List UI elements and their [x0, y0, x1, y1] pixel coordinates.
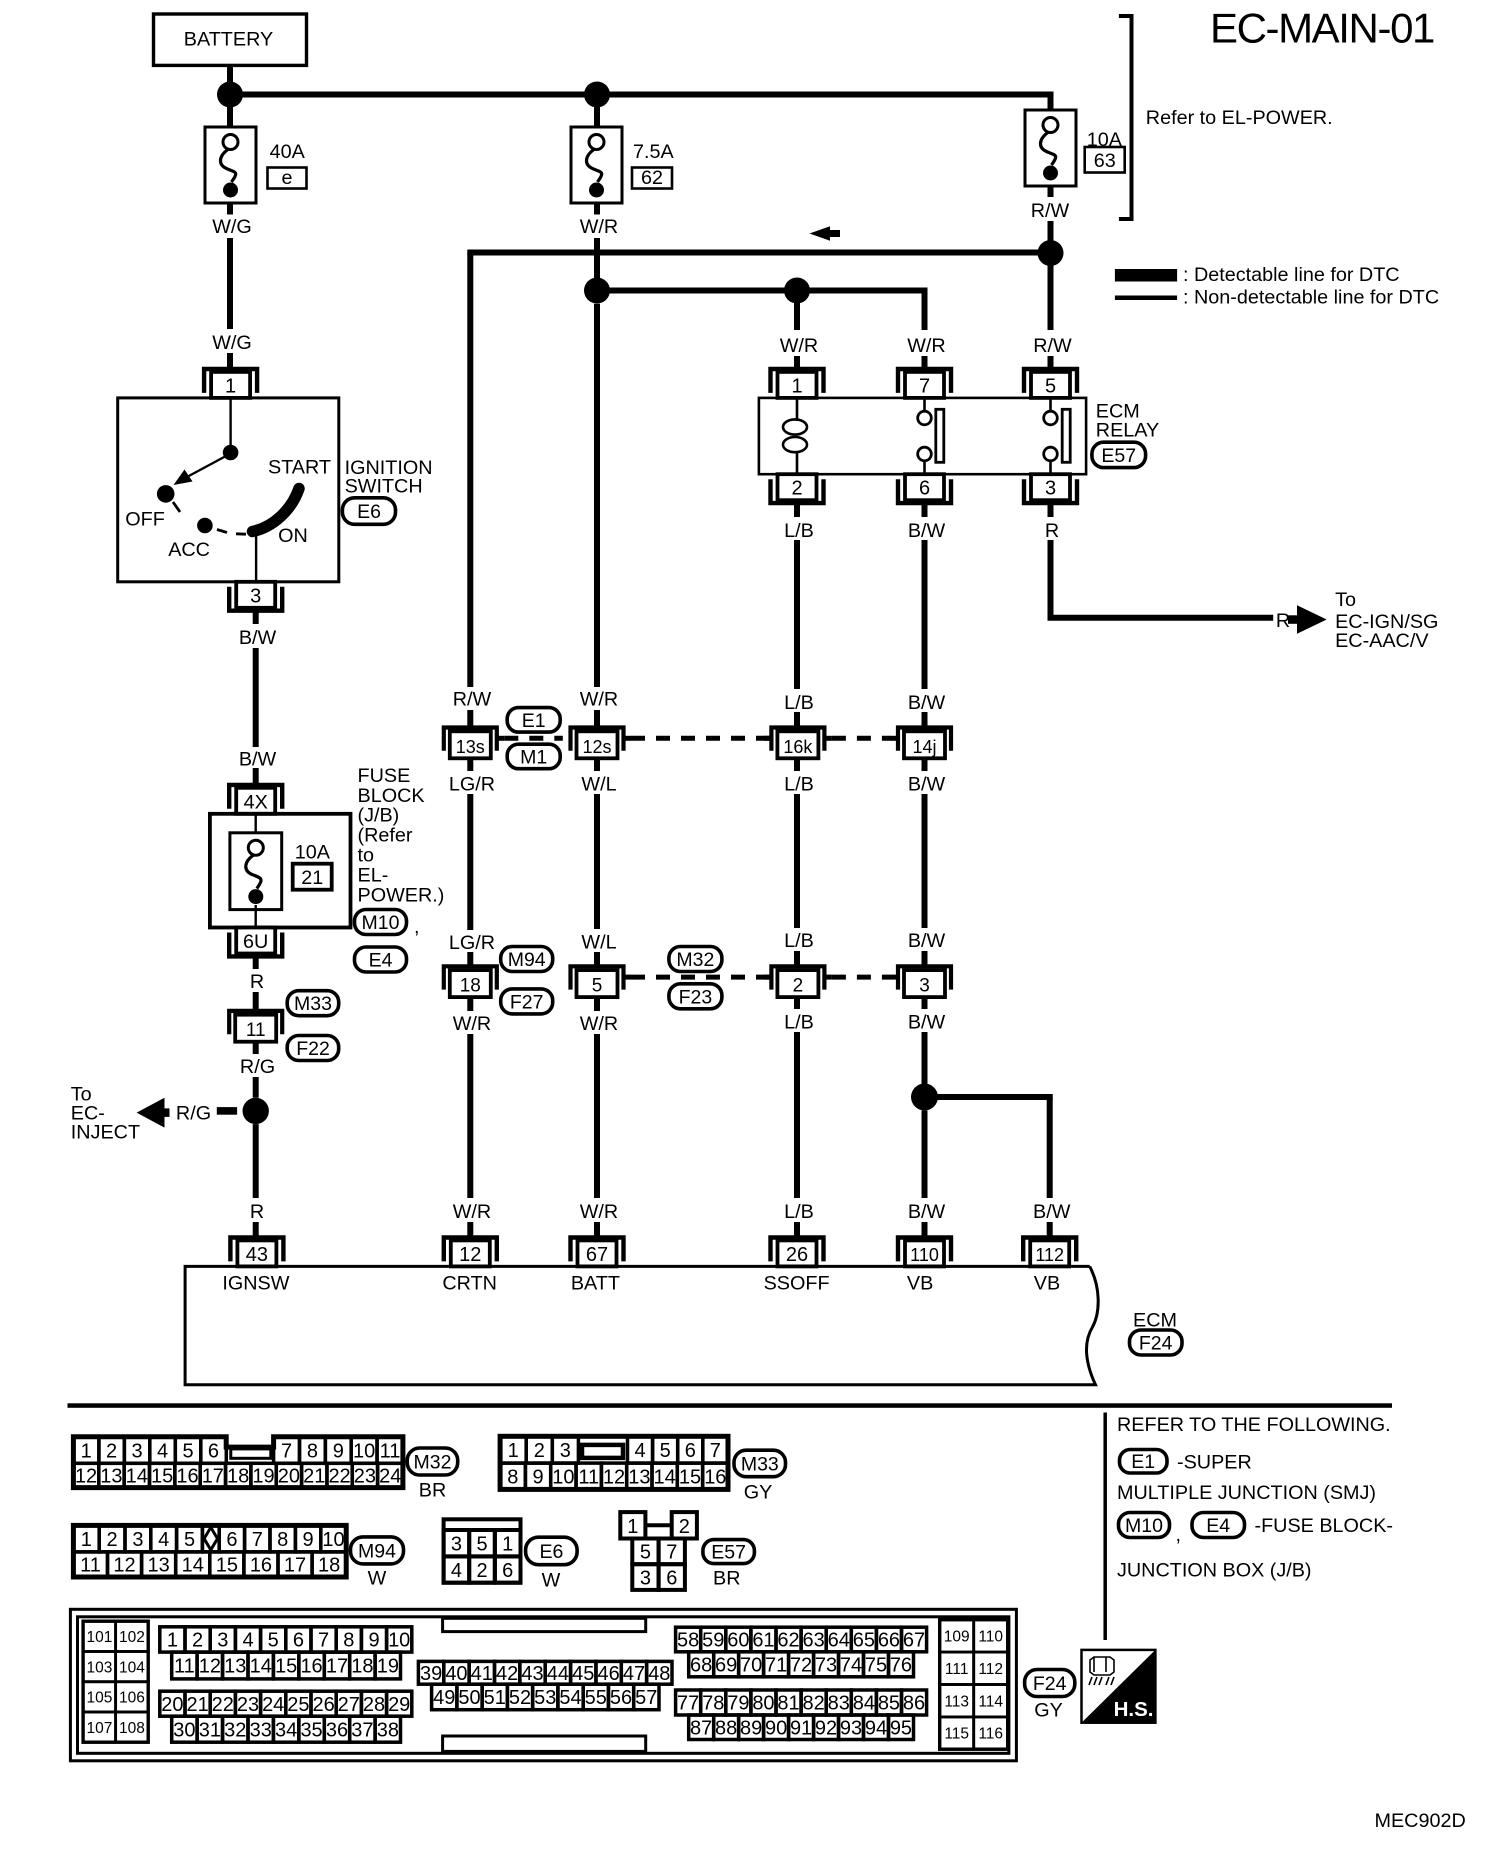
node W/R [584, 278, 610, 304]
svg-text:INJECT: INJECT [71, 1122, 140, 1144]
connector F27 [501, 989, 553, 1014]
svg-text:7: 7 [281, 1440, 292, 1462]
svg-text:68: 68 [690, 1655, 712, 1677]
svg-text:48: 48 [648, 1663, 670, 1685]
svg-text:2: 2 [534, 1440, 545, 1462]
svg-text:: Non-detectable line for DTC: : Non-detectable line for DTC [1183, 287, 1439, 309]
wire W/G fuse e to ignition switch [227, 203, 233, 215]
connector 14j SMJ [898, 728, 951, 751]
svg-text:B/W: B/W [239, 627, 277, 649]
svg-text:8: 8 [507, 1466, 518, 1488]
svg-text:71: 71 [765, 1655, 787, 1677]
svg-text:B/W: B/W [908, 520, 946, 542]
connector 3 [898, 966, 951, 989]
svg-text:36: 36 [326, 1719, 348, 1741]
svg-text:12: 12 [603, 1466, 625, 1488]
svg-text:9: 9 [333, 1440, 344, 1462]
svg-text:4: 4 [634, 1440, 645, 1462]
svg-text:22: 22 [212, 1694, 234, 1716]
svg-text:106: 106 [119, 1690, 145, 1707]
connector face F24 ECM [70, 1609, 1016, 1761]
svg-text:1: 1 [791, 375, 802, 397]
connector M94 [501, 947, 553, 972]
svg-text:83: 83 [828, 1693, 850, 1715]
svg-text:F22: F22 [296, 1038, 330, 1060]
svg-text:91: 91 [790, 1717, 812, 1739]
connector F23 [669, 984, 722, 1009]
connector 13s SMJ [444, 728, 497, 751]
svg-text:61: 61 [752, 1630, 774, 1652]
relay contact 5-3 [1049, 398, 1052, 412]
svg-text:24: 24 [379, 1466, 401, 1488]
battery B1 [154, 14, 307, 65]
pin 110 VB [898, 1238, 951, 1262]
svg-text:To: To [1335, 589, 1356, 611]
svg-text:(Refer: (Refer [358, 825, 413, 847]
pin 67 BATT [571, 1238, 624, 1262]
pins 58-76 [676, 1627, 701, 1652]
node W/R relay branch [784, 278, 810, 304]
wire dashed SMJ 13s-12s [504, 736, 563, 741]
svg-text:28: 28 [363, 1694, 385, 1716]
svg-text:14j: 14j [912, 737, 936, 757]
svg-text:51: 51 [484, 1687, 506, 1709]
svg-text:M94: M94 [358, 1540, 396, 1562]
svg-text:2: 2 [679, 1516, 690, 1538]
svg-text:3: 3 [132, 1440, 143, 1462]
svg-text:L/B: L/B [784, 692, 814, 714]
wire B/W ignition to fuse block [253, 611, 259, 625]
pins 39-57 [418, 1661, 443, 1684]
connector E57 [1092, 442, 1146, 467]
svg-text:116: 116 [978, 1726, 1003, 1743]
svg-text:BLOCK: BLOCK [358, 785, 425, 807]
svg-text:10: 10 [388, 1630, 410, 1652]
legend detectable line for DTC [1115, 269, 1177, 282]
relay pin 5 [1024, 369, 1077, 393]
svg-text:5: 5 [592, 976, 603, 997]
svg-text:15: 15 [216, 1555, 238, 1577]
svg-text:EL-: EL- [358, 864, 389, 886]
svg-text:2: 2 [107, 1529, 118, 1551]
svg-text:102: 102 [119, 1629, 145, 1646]
svg-text:6: 6 [502, 1560, 513, 1582]
svg-text:18: 18 [318, 1555, 340, 1577]
svg-text:2: 2 [192, 1630, 203, 1652]
svg-text:23: 23 [354, 1466, 376, 1488]
svg-text:14: 14 [182, 1555, 204, 1577]
svg-text:L/B: L/B [784, 930, 814, 952]
svg-text:14: 14 [250, 1656, 272, 1678]
connector F22 [287, 1036, 339, 1061]
wire dashed SMJ 12s-16k [631, 736, 771, 741]
svg-text:26: 26 [312, 1694, 334, 1716]
wire main battery bus [227, 92, 1054, 98]
svg-text:W/R: W/R [580, 1201, 618, 1223]
svg-text:11: 11 [174, 1656, 195, 1678]
svg-text:1: 1 [508, 1440, 519, 1462]
svg-text:31: 31 [199, 1719, 221, 1741]
node battery bus / fuse e [217, 82, 243, 108]
keying notch top [443, 1618, 646, 1631]
svg-text:33: 33 [250, 1719, 272, 1741]
relay pin 6 [898, 479, 951, 503]
svg-text:13: 13 [100, 1466, 122, 1488]
svg-text:11: 11 [246, 1020, 266, 1041]
svg-text:19: 19 [377, 1656, 399, 1678]
svg-text:9: 9 [303, 1529, 314, 1551]
connector face E6 W [444, 1519, 521, 1582]
wire W/R to connector 12s [594, 304, 600, 687]
svg-text:4: 4 [157, 1440, 168, 1462]
pins 109-116 [940, 1620, 1008, 1750]
svg-text:16: 16 [176, 1466, 198, 1488]
H.S. data link badge [1082, 1650, 1156, 1723]
svg-text:F23: F23 [679, 986, 713, 1008]
svg-text:3: 3 [250, 585, 261, 607]
svg-text:5: 5 [184, 1529, 195, 1551]
svg-text:16: 16 [300, 1656, 322, 1678]
svg-text:85: 85 [878, 1693, 900, 1715]
wire R/W to relay pin 5 [1048, 253, 1054, 330]
svg-text:JUNCTION BOX (J/B): JUNCTION BOX (J/B) [1117, 1560, 1312, 1582]
svg-text:40: 40 [445, 1663, 467, 1685]
svg-text:R: R [250, 1201, 264, 1223]
connector 2 [771, 966, 824, 989]
svg-text:-SUPER: -SUPER [1177, 1452, 1252, 1474]
connector E4 [355, 947, 407, 972]
svg-text:43: 43 [521, 1663, 543, 1685]
svg-text:B/W: B/W [908, 1201, 946, 1223]
pin 3 ignition switch [229, 587, 282, 611]
svg-text:78: 78 [702, 1693, 724, 1715]
svg-text:62: 62 [641, 167, 663, 189]
connector F24 [1130, 1330, 1183, 1355]
svg-text:21: 21 [303, 1466, 325, 1488]
pin 1 ignition switch [204, 369, 257, 393]
svg-text:95: 95 [890, 1717, 912, 1739]
bracket Refer to EL-POWER [1119, 16, 1132, 219]
svg-text:8: 8 [307, 1440, 318, 1462]
pin 112 VB [1023, 1238, 1076, 1262]
wire W/L 12s to 5 [594, 759, 600, 772]
svg-text:90: 90 [765, 1717, 787, 1739]
svg-text:56: 56 [610, 1687, 632, 1709]
svg-text:17: 17 [202, 1466, 224, 1488]
svg-text:11: 11 [578, 1466, 599, 1488]
svg-text:3: 3 [1045, 478, 1056, 500]
node B/W split [911, 1084, 938, 1111]
keying notch bottom [443, 1736, 646, 1751]
svg-text:E6: E6 [539, 1541, 563, 1563]
svg-text:W/R: W/R [907, 335, 945, 357]
legend non-detectable line for DTC [1115, 296, 1177, 301]
svg-text:CRTN: CRTN [442, 1273, 497, 1295]
svg-text:5: 5 [660, 1440, 671, 1462]
svg-text:VB: VB [907, 1273, 933, 1295]
svg-text:112: 112 [1035, 1245, 1064, 1265]
svg-text:BATTERY: BATTERY [184, 29, 273, 51]
svg-text:W/R: W/R [580, 689, 618, 711]
svg-text:17: 17 [284, 1555, 306, 1577]
relay pin 2 [771, 479, 824, 503]
connector 16k SMJ [771, 728, 824, 751]
wire B/W node to pin 110 [922, 1111, 928, 1199]
svg-text:e: e [281, 167, 292, 189]
svg-text:20: 20 [278, 1466, 300, 1488]
relay contact 7-6 [923, 398, 926, 412]
svg-text:E1: E1 [522, 710, 546, 732]
svg-text:13: 13 [224, 1656, 246, 1678]
ignition switch E6 [118, 398, 339, 582]
svg-text:67: 67 [903, 1630, 925, 1652]
svg-text:EC-MAIN-01: EC-MAIN-01 [1210, 5, 1434, 52]
svg-text:54: 54 [559, 1687, 581, 1709]
svg-text:58: 58 [677, 1630, 699, 1652]
svg-text:10A: 10A [295, 842, 331, 864]
svg-text:2: 2 [793, 976, 804, 997]
wire W/R fuse 62 down [594, 203, 600, 215]
svg-text:62: 62 [777, 1630, 799, 1652]
svg-text:10: 10 [353, 1440, 375, 1462]
svg-text:FUSE: FUSE [358, 765, 411, 787]
svg-text:E6: E6 [357, 501, 381, 523]
svg-text:13: 13 [148, 1555, 170, 1577]
svg-text:5: 5 [268, 1630, 279, 1652]
svg-text:15: 15 [151, 1466, 173, 1488]
svg-text:34: 34 [275, 1719, 297, 1741]
svg-text:6U: 6U [243, 931, 268, 953]
relay pin 3 [1024, 479, 1077, 503]
svg-text:M33: M33 [294, 993, 332, 1015]
svg-text:59: 59 [702, 1630, 724, 1652]
svg-text:17: 17 [326, 1656, 348, 1678]
svg-text:23: 23 [237, 1694, 259, 1716]
svg-text:SSOFF: SSOFF [764, 1273, 830, 1295]
svg-text:5: 5 [1045, 375, 1056, 397]
svg-text:25: 25 [287, 1694, 309, 1716]
svg-text:B/W: B/W [908, 692, 946, 714]
svg-text:1: 1 [627, 1516, 638, 1538]
svg-text:14: 14 [126, 1466, 148, 1488]
connector 11 M33/F22 [229, 1011, 282, 1034]
svg-text:BR: BR [713, 1568, 740, 1590]
svg-text:75: 75 [865, 1655, 887, 1677]
svg-text:ON: ON [278, 525, 308, 547]
svg-text:10: 10 [322, 1529, 344, 1551]
wire dashed 5-2 [631, 975, 771, 980]
vertical rule above badge [1103, 1413, 1107, 1641]
svg-text:B/W: B/W [239, 749, 277, 771]
svg-text:47: 47 [623, 1663, 645, 1685]
svg-text:112: 112 [978, 1661, 1003, 1678]
arrow to EC-IGN/SG [1297, 605, 1327, 634]
connector E1 [507, 708, 560, 733]
pin 12 CRTN [444, 1238, 497, 1262]
svg-text:,: , [1176, 1524, 1182, 1546]
svg-text:81: 81 [777, 1693, 799, 1715]
svg-text:11: 11 [380, 1440, 401, 1462]
svg-text:Refer to EL-POWER.: Refer to EL-POWER. [1146, 107, 1333, 129]
svg-text:88: 88 [715, 1717, 737, 1739]
connector 18 M94/F27 [444, 966, 497, 989]
svg-text:64: 64 [828, 1630, 850, 1652]
svg-text:9: 9 [368, 1630, 379, 1652]
svg-text:37: 37 [351, 1719, 373, 1741]
wire L/B 16k to 2 [794, 759, 800, 772]
svg-text:20: 20 [161, 1694, 183, 1716]
svg-text:LG/R: LG/R [449, 932, 495, 954]
svg-text:80: 80 [752, 1693, 774, 1715]
svg-text:94: 94 [865, 1717, 887, 1739]
svg-text:E57: E57 [1101, 445, 1136, 467]
svg-text:8: 8 [343, 1630, 354, 1652]
svg-text:4: 4 [158, 1529, 169, 1551]
svg-text:12: 12 [459, 1244, 481, 1266]
svg-text:6: 6 [685, 1440, 696, 1462]
svg-text:57: 57 [635, 1687, 657, 1709]
svg-text:START: START [268, 457, 331, 479]
node battery bus / fuse 62 [584, 82, 610, 108]
svg-text:19: 19 [252, 1466, 274, 1488]
wire dashed 2-3 [832, 975, 891, 980]
svg-text:1: 1 [225, 375, 236, 397]
svg-text:1: 1 [81, 1529, 92, 1551]
svg-text:W: W [368, 1568, 387, 1590]
wire dashed R/G to arrow [217, 1107, 237, 1115]
svg-text:W/L: W/L [581, 773, 616, 795]
svg-text:W/R: W/R [453, 1013, 491, 1035]
wire R to EC-IGN/SG EC-AAC/V [1048, 503, 1054, 517]
fuse block J/B box [210, 814, 351, 928]
svg-text:111: 111 [945, 1661, 969, 1678]
svg-text:GY: GY [744, 1482, 773, 1504]
svg-text:107: 107 [86, 1720, 112, 1737]
svg-text:E4: E4 [369, 950, 393, 972]
svg-text:16k: 16k [783, 737, 813, 757]
svg-text:52: 52 [509, 1687, 531, 1709]
svg-text:104: 104 [119, 1659, 145, 1676]
relay pin 1 [771, 369, 824, 393]
svg-text:12: 12 [199, 1656, 221, 1678]
wire R/W horizontal from fuse 63 [467, 250, 1053, 256]
svg-text:BATT: BATT [571, 1273, 620, 1295]
svg-text:B/W: B/W [908, 773, 946, 795]
svg-text:M32: M32 [676, 949, 714, 971]
connector face M94 W [73, 1525, 346, 1577]
svg-text:110: 110 [978, 1629, 1003, 1646]
svg-text:to: to [358, 845, 375, 867]
svg-text:101: 101 [86, 1629, 112, 1646]
svg-text:79: 79 [727, 1693, 749, 1715]
svg-text:7: 7 [318, 1630, 329, 1652]
pin 6U fuse block [229, 933, 282, 957]
svg-text:B/W: B/W [908, 1012, 946, 1034]
svg-text:-FUSE BLOCK-: -FUSE BLOCK- [1255, 1515, 1394, 1537]
svg-text:12: 12 [75, 1466, 97, 1488]
svg-text:MULTIPLE JUNCTION (SMJ): MULTIPLE JUNCTION (SMJ) [1117, 1482, 1376, 1504]
svg-text:60: 60 [727, 1630, 749, 1652]
fuse 7.5A 62 [594, 95, 600, 129]
svg-text:3: 3 [560, 1440, 571, 1462]
svg-text:5: 5 [476, 1533, 487, 1555]
fuse 10A 21 [254, 814, 256, 840]
svg-text:4: 4 [242, 1630, 253, 1652]
svg-text:93: 93 [840, 1717, 862, 1739]
svg-text:M10: M10 [362, 912, 400, 934]
svg-text:8: 8 [277, 1529, 288, 1551]
connector F24 ref [1025, 1670, 1075, 1697]
svg-text:46: 46 [597, 1663, 619, 1685]
pin 4X fuse block [229, 785, 282, 809]
wire R junction to pin 43 [253, 1124, 259, 1198]
svg-text:E57: E57 [711, 1542, 746, 1564]
svg-text:63: 63 [803, 1630, 825, 1652]
svg-text:22: 22 [328, 1466, 350, 1488]
svg-text:IGNSW: IGNSW [222, 1273, 289, 1295]
svg-text:7: 7 [666, 1542, 677, 1564]
wire L/B relay pin 2 down [794, 503, 800, 517]
svg-text:84: 84 [853, 1693, 875, 1715]
svg-text:86: 86 [903, 1693, 925, 1715]
svg-text:F27: F27 [510, 991, 544, 1013]
connector M1 [507, 744, 560, 769]
svg-text:74: 74 [840, 1655, 862, 1677]
pins 101-108 [83, 1621, 148, 1742]
svg-text:113: 113 [944, 1693, 969, 1710]
svg-text:87: 87 [690, 1717, 712, 1739]
svg-text:M10: M10 [1125, 1515, 1163, 1537]
svg-text:55: 55 [585, 1687, 607, 1709]
svg-text:W/G: W/G [212, 216, 252, 238]
svg-text:109: 109 [944, 1629, 970, 1646]
svg-text:B/W: B/W [908, 930, 946, 952]
svg-text:2: 2 [476, 1560, 487, 1582]
pin 26 SSOFF [771, 1238, 824, 1262]
svg-text:W/G: W/G [212, 332, 252, 354]
svg-text:R: R [1045, 520, 1059, 542]
svg-text:50: 50 [458, 1687, 480, 1709]
svg-text:M32: M32 [414, 1452, 452, 1474]
svg-text:B/W: B/W [1033, 1201, 1071, 1223]
svg-text:L/B: L/B [784, 520, 814, 542]
node R/G to EC-INJECT [243, 1098, 269, 1124]
pins 1-19 [160, 1627, 185, 1652]
svg-text:24: 24 [262, 1694, 284, 1716]
svg-text:RELAY: RELAY [1096, 419, 1159, 441]
svg-text:M1: M1 [520, 747, 547, 769]
wire R/W fuse 63 to node [1048, 186, 1054, 197]
svg-text:W/R: W/R [453, 1201, 491, 1223]
svg-text:77: 77 [677, 1693, 699, 1715]
svg-text:76: 76 [890, 1655, 912, 1677]
svg-text:OFF: OFF [125, 509, 165, 531]
svg-text:27: 27 [338, 1694, 360, 1716]
ECM relay E57 box [759, 398, 1086, 474]
svg-text:108: 108 [119, 1720, 145, 1737]
wire B/W 14j to 3 [922, 759, 928, 772]
svg-text:39: 39 [420, 1663, 442, 1685]
svg-text:E4: E4 [1206, 1515, 1230, 1537]
svg-text:110: 110 [910, 1245, 939, 1265]
wire R fuse block to connector 11 [253, 956, 259, 969]
svg-text:4X: 4X [244, 791, 268, 813]
svg-text:103: 103 [86, 1659, 112, 1676]
svg-text:44: 44 [547, 1663, 569, 1685]
svg-text:1: 1 [81, 1440, 92, 1462]
connector 12s SMJ [571, 728, 624, 751]
svg-text:GY: GY [1034, 1699, 1063, 1721]
